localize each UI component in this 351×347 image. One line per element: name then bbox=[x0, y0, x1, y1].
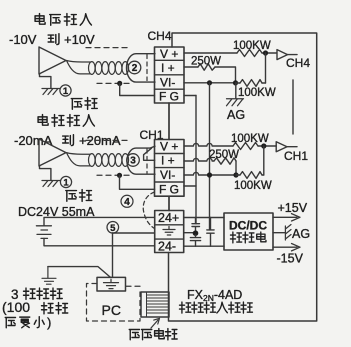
chassis ground hatch (source 1) bbox=[42, 89, 60, 95]
svg-text:100KW: 100KW bbox=[238, 87, 276, 99]
dashed FG-to-ground link (4) bbox=[143, 192, 154, 229]
battery DC24V bbox=[36, 226, 51, 239]
wire VI- with hop (CH1) bbox=[184, 172, 236, 175]
chassis ground AG (right) bbox=[285, 225, 291, 241]
wire I+ down to VI- (CH1) bbox=[235, 161, 237, 175]
svg-text:I +: I + bbox=[161, 154, 175, 168]
bottom supply rail bbox=[184, 245, 224, 247]
wire VI- (CH4) bbox=[184, 82, 236, 84]
svg-text:): ) bbox=[47, 315, 51, 330]
svg-text:VI-: VI- bbox=[160, 76, 175, 90]
svg-text:5: 5 bbox=[110, 223, 116, 234]
svg-text:VI-: VI- bbox=[160, 168, 175, 182]
wire bullet to V+ (CH1) bbox=[150, 146, 155, 148]
label -20mA 到 +20mA bbox=[14, 133, 121, 148]
pin ground symbol bbox=[163, 227, 175, 236]
label 或更小) bbox=[5, 318, 15, 328]
svg-text:100KW: 100KW bbox=[234, 180, 272, 192]
cap junction dot bbox=[193, 230, 199, 236]
wire I+ (CH4) bbox=[184, 66, 198, 68]
svg-text:1: 1 bbox=[63, 178, 69, 189]
circled 1 (CH4) bbox=[60, 85, 71, 96]
svg-text:V +: V + bbox=[160, 47, 178, 61]
channel omission line bbox=[292, 80, 294, 134]
svg-text:250W: 250W bbox=[209, 149, 239, 161]
op-amp buffer CH4 bbox=[277, 50, 288, 60]
svg-text:+15V: +15V bbox=[278, 201, 308, 215]
svg-text:AG: AG bbox=[227, 108, 245, 122]
wire to amp (CH4) bbox=[262, 52, 276, 54]
label 转换器 (converter) bbox=[230, 232, 241, 243]
feedback wire node-to-VI- (CH4) bbox=[265, 53, 267, 83]
capacitor C1 upper bbox=[192, 218, 200, 232]
shield dashed line below coil (CH1) bbox=[97, 174, 133, 176]
class-3 earth symbol bbox=[42, 267, 56, 285]
twisted pair from source apex (CH4) bbox=[67, 61, 91, 74]
svg-text:FX2N-4AD: FX2N-4AD bbox=[187, 288, 242, 303]
arrow to connector bbox=[151, 320, 158, 328]
svg-text:(100: (100 bbox=[2, 299, 30, 315]
terminal block CH4 bbox=[155, 47, 185, 103]
svg-text:-20mA: -20mA bbox=[14, 133, 53, 148]
node after 100KW (CH1) bbox=[261, 143, 266, 148]
+15V output wire bbox=[273, 216, 297, 218]
svg-text:F G: F G bbox=[159, 183, 179, 197]
label -10V 到 +10V bbox=[9, 32, 95, 47]
wire V+ with hops (CH1) bbox=[184, 143, 233, 146]
terminal block 24V bbox=[155, 211, 184, 253]
twisted pair coil loops (CH4) bbox=[89, 62, 129, 75]
svg-text:DC/DC: DC/DC bbox=[229, 219, 267, 233]
mid rail to cap junction bbox=[184, 232, 196, 234]
svg-text:-10V: -10V bbox=[9, 32, 37, 47]
cable end bullet (CH4) bbox=[127, 54, 155, 82]
circled 3 bbox=[127, 154, 140, 167]
AG rail down bbox=[209, 83, 211, 230]
wire I+ down to VI- (CH4) bbox=[215, 67, 236, 83]
label 模拟输入模块 (analog input module) bbox=[179, 302, 190, 313]
label 电流输入 (current input) bbox=[38, 115, 94, 127]
svg-text:1: 1 bbox=[63, 86, 69, 97]
shield wire to FG (CH1) bbox=[120, 175, 155, 189]
jumper V+ to I+ (CH1 current mode) bbox=[144, 148, 155, 160]
resistor 250W (CH4) bbox=[198, 64, 215, 70]
circled 5 bbox=[107, 222, 119, 234]
AG output wire bbox=[273, 232, 285, 234]
svg-text:PC: PC bbox=[102, 302, 121, 318]
extension cable connector bbox=[141, 292, 169, 317]
-15V output wire bbox=[273, 246, 297, 248]
svg-text:F G: F G bbox=[159, 90, 179, 104]
svg-text:-15V: -15V bbox=[277, 252, 304, 266]
svg-text:CH4: CH4 bbox=[286, 56, 310, 70]
node after 100KW (CH4) bbox=[263, 50, 268, 55]
shield dashed line above coil (CH1) bbox=[86, 139, 130, 141]
svg-text:CH1: CH1 bbox=[284, 149, 308, 163]
capacitor C2 bbox=[207, 218, 214, 247]
wire FG right (CH4) bbox=[184, 95, 196, 97]
resistor 100KW (CH4 upper) bbox=[237, 50, 262, 57]
connector line between FG and 24+ bbox=[168, 196, 170, 210]
circled 4 bbox=[121, 195, 133, 207]
wire V+ (CH4) bbox=[184, 52, 237, 54]
terminal block CH1 bbox=[155, 140, 185, 197]
svg-text:CH4: CH4 bbox=[148, 29, 172, 43]
FG rail down bbox=[195, 96, 197, 224]
shield wire to FG (CH4) bbox=[120, 83, 155, 95]
twisted pair coil loops (CH1) bbox=[89, 154, 129, 167]
chassis ground AG (CH4) bbox=[227, 99, 244, 106]
wire FG right (CH1) bbox=[184, 185, 196, 187]
feedback wire node-to-VI- (CH1) bbox=[263, 146, 265, 175]
svg-text:4: 4 bbox=[124, 197, 130, 208]
label 扩展电缆 (extension cable) bbox=[129, 330, 139, 340]
wire battery- to 24- bbox=[44, 238, 155, 245]
shield dashed line above coil (CH4) bbox=[86, 47, 130, 49]
shield junction dot (CH1) bbox=[117, 173, 122, 178]
ground lead from source bbox=[40, 74, 51, 89]
resistor 250W (CH1) bbox=[214, 158, 236, 164]
svg-text:24+: 24+ bbox=[158, 211, 179, 225]
earth wire to PC ground box bbox=[48, 267, 111, 278]
wire battery+ to 24+ bbox=[44, 217, 155, 225]
label 屏蔽 (shield, CH1) bbox=[66, 191, 77, 202]
svg-text:100KW: 100KW bbox=[233, 40, 271, 52]
source amplifier triangle (current) bbox=[39, 139, 66, 166]
circled 2 bbox=[128, 61, 141, 74]
DC/DC converter box bbox=[224, 213, 273, 250]
twisted pair from source apex (CH1) bbox=[67, 153, 91, 166]
resistor 100KW (CH1 lower) bbox=[240, 172, 262, 179]
resistor 100KW (CH1 upper) bbox=[233, 143, 258, 150]
junction dot VI-/250W (CH1) bbox=[233, 172, 238, 177]
svg-text:V +: V + bbox=[160, 140, 178, 154]
shield dashed line below coil (CH4) bbox=[97, 82, 133, 84]
amp output wire CH1 bbox=[287, 146, 297, 148]
cable shield boundary dash (CH1) bbox=[146, 149, 148, 173]
amp output wire CH4 bbox=[288, 54, 298, 56]
svg-text:AG: AG bbox=[292, 227, 310, 241]
svg-text:3: 3 bbox=[130, 156, 136, 167]
svg-text:+10V: +10V bbox=[64, 32, 95, 47]
source amplifier triangle (voltage) bbox=[39, 47, 66, 74]
wire to amp (CH1) bbox=[258, 145, 276, 147]
label 电压输入 (voltage input) bbox=[35, 14, 91, 26]
cable shield boundary dash (CH4) bbox=[146, 55, 148, 81]
junction dot VI-/AG rail (CH1) bbox=[207, 172, 212, 177]
wire mid down to PC ground bbox=[112, 233, 114, 277]
svg-text:250W: 250W bbox=[191, 56, 221, 68]
top supply rail bbox=[184, 217, 224, 219]
junction dot VI-/AG rail (CH4) bbox=[207, 80, 212, 85]
AG stub (CH4) bbox=[235, 83, 237, 99]
wire ground-mid to block bbox=[113, 232, 155, 234]
capacitor C1 lower bbox=[190, 235, 200, 246]
wire I+ with hops (CH1) bbox=[184, 158, 214, 161]
resistor 100KW (CH4 lower) bbox=[240, 80, 262, 87]
shield junction dot (CH4) bbox=[117, 81, 122, 86]
cable end bullet (CH1) bbox=[127, 148, 155, 174]
connector line CH4-CH1 blocks bbox=[168, 103, 170, 140]
PC ground box bbox=[97, 277, 126, 291]
svg-text:I +: I + bbox=[161, 61, 175, 75]
ground lead from source (CH1) bbox=[40, 166, 51, 181]
label 屏蔽 (shield, CH4) bbox=[71, 99, 82, 110]
ground symbol in box bbox=[104, 279, 119, 288]
chassis ground hatch (source 2) bbox=[42, 181, 60, 187]
dashed PC enclosure bbox=[87, 284, 141, 322]
junction dot VI-/250W (CH4) bbox=[233, 80, 238, 85]
svg-text:24-: 24- bbox=[158, 240, 176, 254]
op-amp buffer CH1 bbox=[276, 142, 287, 152]
svg-text:100KW: 100KW bbox=[231, 133, 269, 145]
svg-text:2: 2 bbox=[132, 63, 138, 74]
circled 1 (CH1) bbox=[60, 176, 71, 187]
